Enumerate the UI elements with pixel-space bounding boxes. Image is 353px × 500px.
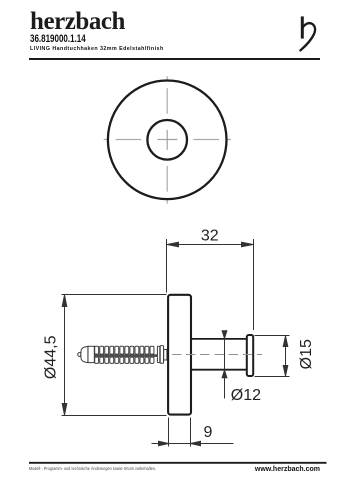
- wall anchor screw: flange ring: [160, 346, 163, 364]
- hook peg top line: [191, 338, 247, 340]
- header product line LIVING Handtuchhaken 32mm Edelstahlfinish: [30, 47, 164, 52]
- front view outer circle (rosette Ø44.5): [108, 81, 227, 200]
- dimension Ø15: dimension line with arrows: [283, 336, 288, 377]
- svg-text:9: 9: [204, 424, 213, 441]
- dimension Ø44,5: dimension line with arrows: [62, 295, 67, 416]
- dimension Ø44,5: bottom extension line: [62, 415, 167, 417]
- side view axis centerline (dashed): [172, 354, 262, 356]
- svg-text:Ø12: Ø12: [231, 387, 261, 404]
- front view vertical centerline: [166, 76, 168, 203]
- dimension Ø15: top extension line: [255, 335, 290, 337]
- front view inner circle (hub): [147, 120, 187, 160]
- footer rule: [29, 462, 327, 464]
- svg-text:Ø44,5: Ø44,5: [43, 335, 60, 379]
- wall anchor screw: tip nub: [78, 353, 81, 357]
- dimension Ø15: bottom extension line: [255, 376, 290, 378]
- herzbach logo glyph (stylised h with tail): [300, 16, 315, 50]
- footer website www.herzbach.com: [0, 466, 320, 473]
- wall anchor screw: thread ribs: [95, 346, 154, 363]
- front view horizontal centerline: [104, 139, 231, 141]
- hook end cap (Ø15): [247, 335, 253, 376]
- header rule: [29, 58, 320, 60]
- svg-text:32: 32: [201, 228, 219, 245]
- wall anchor screw: cone head: [81, 346, 88, 362]
- header brand wordmark "herzbach": [30, 9, 125, 34]
- rosette plate (side view): [168, 295, 191, 415]
- wall anchor screw: neck section: [88, 346, 94, 362]
- header article number 36.819000.1.14: [30, 34, 86, 45]
- wall anchor screw: collar ring: [157, 346, 159, 362]
- dimension Ø44,5: top extension line: [62, 294, 167, 296]
- hook peg bottom line: [191, 369, 247, 371]
- dimension Ø12: leader line with arrows: [222, 331, 227, 399]
- svg-text:Ø15: Ø15: [298, 339, 315, 369]
- dimension 32: left extension line: [166, 239, 168, 293]
- dimension 32: dimension line with arrows: [167, 242, 254, 247]
- wall anchor screw: core band: [94, 354, 166, 357]
- footer disclaimer text: [29, 467, 156, 472]
- dimension 9: left extension line: [168, 418, 170, 447]
- dimension 32: right extension line: [253, 239, 255, 330]
- dimension 9: dimension line with arrows: [152, 441, 234, 446]
- wall anchor screw: shoulder stub: [164, 349, 167, 360]
- dimension 9: right extension line: [190, 418, 192, 447]
